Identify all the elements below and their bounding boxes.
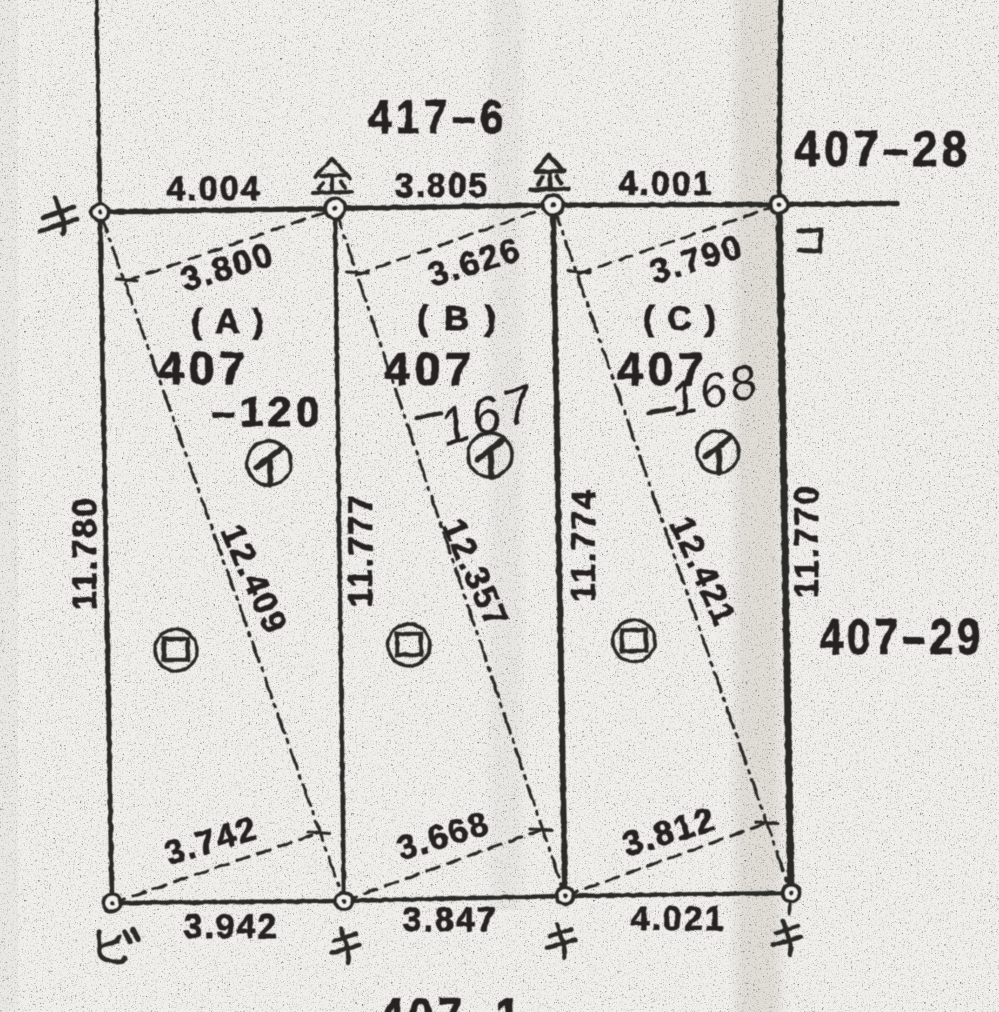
wire: tick at end of 3.800 — [116, 279, 137, 281]
scan gray band mid — [483, 0, 529, 910]
parcel C handwritten -168 — [648, 408, 674, 413]
circled I symbol parcel A — [247, 441, 291, 485]
wire: dashed 3.812 — [565, 823, 767, 896]
node P1: survey point circle — [92, 204, 109, 221]
katakana KO label at P4 — [799, 230, 821, 251]
svg-text:11.774: 11.774 — [565, 488, 603, 602]
circled square symbol parcel A — [155, 629, 197, 671]
node Q3: survey point circle — [557, 888, 574, 905]
svg-text:(A): (A) — [191, 303, 269, 341]
wire: inner boundary P3-Q3 — [553, 205, 565, 896]
wire: left boundary P1-Q1 — [100, 212, 112, 903]
wire: small tick below Q4 — [790, 896, 791, 914]
scan gray band left edge — [0, 0, 18, 1012]
node Q1: survey point circle — [104, 895, 121, 912]
katakana KI label at P1 — [40, 198, 77, 234]
wire: dashed 3.626 — [356, 206, 553, 276]
katakana BI label at Q1 — [99, 930, 138, 962]
wire: tick at end of 3.790 — [568, 271, 590, 273]
scan gray band right — [728, 0, 788, 1012]
wire: bottom boundary Q1-Q4 — [112, 893, 791, 903]
svg-text:417–6: 417–6 — [368, 90, 508, 143]
svg-text:4.021: 4.021 — [630, 900, 725, 938]
svg-text:–120: –120 — [212, 388, 325, 435]
svg-text:11.770: 11.770 — [788, 484, 826, 598]
svg-text:3.805: 3.805 — [394, 167, 489, 205]
node P2: survey point circle — [325, 199, 345, 219]
wire: vertical line above P4 — [779, 0, 781, 204]
node Q2: survey point circle — [336, 893, 353, 910]
circled I symbol parcel C — [697, 431, 739, 473]
circled I symbol parcel B — [468, 433, 512, 477]
svg-text:4.004: 4.004 — [166, 170, 261, 208]
svg-text:11.777: 11.777 — [342, 493, 380, 607]
wire: dashed 3.742 — [112, 833, 319, 903]
svg-text:(C): (C) — [643, 300, 721, 338]
wire: tick at end of 3.812 — [756, 822, 778, 824]
wire: dashed 3.668 — [344, 830, 541, 901]
katakana KI label at Q2 — [331, 929, 359, 963]
wire: tick at end of 3.626 — [346, 272, 368, 273]
svg-text:407–28: 407–28 — [795, 121, 972, 177]
wire: inner boundary P2-Q2 — [335, 209, 344, 902]
svg-text:(B): (B) — [417, 300, 501, 338]
svg-text:407: 407 — [158, 342, 250, 394]
parcel B handwritten -167 — [417, 413, 441, 418]
wire: vertical line above P1 — [97, 0, 101, 212]
wire: diagonal dash-dot 12.421 P3-Q4 — [553, 205, 791, 893]
node P3: survey point circle — [543, 195, 563, 215]
svg-text:407: 407 — [384, 343, 476, 395]
katakana KI label at Q3 — [547, 924, 575, 958]
svg-text:3.942: 3.942 — [183, 908, 278, 946]
wire: dashed 3.800 — [126, 209, 335, 281]
wire: right boundary P4-Q4 — [779, 205, 791, 894]
circled square symbol parcel C — [613, 620, 655, 662]
kanji KIN marker above P2 — [313, 159, 352, 193]
svg-text:3.847: 3.847 — [402, 901, 497, 939]
kanji KIN marker above P3 — [531, 155, 569, 190]
wire: tick at end of 3.742 — [308, 832, 330, 834]
circled square symbol parcel B — [388, 624, 430, 666]
svg-text:4.001: 4.001 — [618, 165, 713, 203]
svg-text:11.780: 11.780 — [66, 496, 104, 610]
svg-text:407–1: 407–1 — [380, 988, 525, 1012]
svg-text:407–29: 407–29 — [820, 609, 985, 665]
node P4: survey point circle — [771, 196, 788, 213]
wire: tick at end of 3.668 — [530, 829, 552, 831]
node Q4: survey point circle — [783, 885, 800, 902]
wire: top boundary line P1-P2-P3-P4 and extension — [100, 204, 897, 213]
wire: dashed 3.790 — [578, 205, 779, 274]
wire: diagonal dash-dot 12.357 P2-Q3 — [335, 209, 565, 897]
wire: diagonal dash-dot 12.409 P1-Q2 — [100, 212, 344, 901]
katakana KI label at Q4 — [773, 921, 801, 955]
